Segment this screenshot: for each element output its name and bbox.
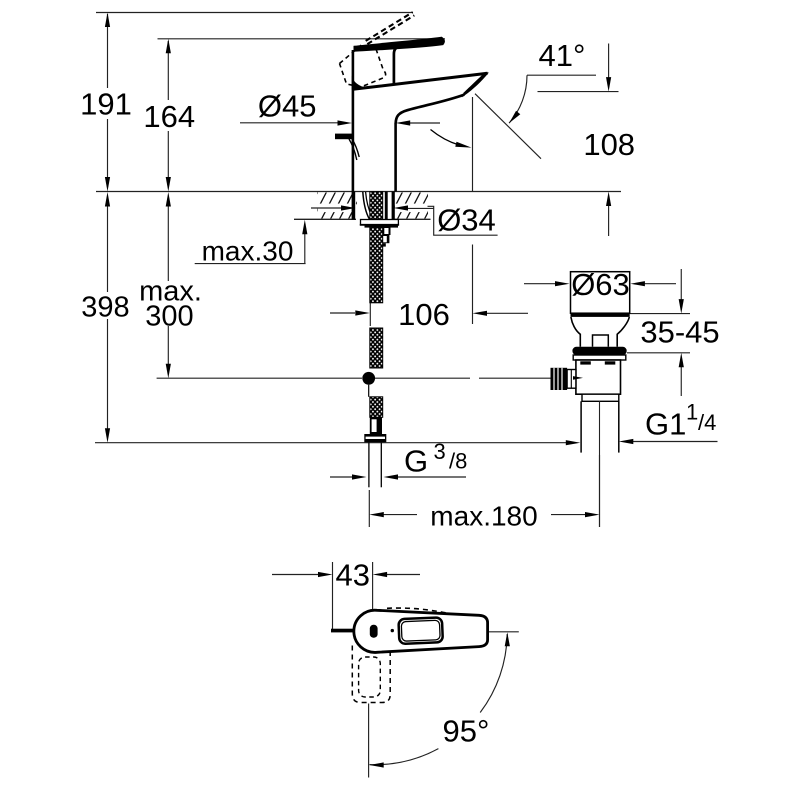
svg-text:95°: 95° xyxy=(443,714,490,749)
svg-text:/8: /8 xyxy=(449,449,467,474)
svg-text:Ø34: Ø34 xyxy=(437,203,496,238)
svg-text:G: G xyxy=(404,444,428,479)
svg-text:35-45: 35-45 xyxy=(640,315,719,350)
svg-text:3: 3 xyxy=(434,439,446,464)
svg-text:300: 300 xyxy=(145,301,193,333)
svg-text:/4: /4 xyxy=(698,410,716,435)
svg-text:Ø63: Ø63 xyxy=(571,267,630,302)
svg-text:43: 43 xyxy=(336,558,370,593)
svg-text:G1: G1 xyxy=(645,407,686,442)
svg-text:108: 108 xyxy=(583,127,635,162)
svg-text:191: 191 xyxy=(80,87,132,122)
svg-text:398: 398 xyxy=(81,292,129,324)
svg-text:max.180: max.180 xyxy=(430,501,537,532)
svg-text:1: 1 xyxy=(686,400,698,425)
svg-text:164: 164 xyxy=(143,99,195,134)
svg-text:41°: 41° xyxy=(539,38,586,73)
svg-text:max.30: max.30 xyxy=(202,236,294,267)
svg-text:106: 106 xyxy=(398,297,450,332)
svg-text:Ø45: Ø45 xyxy=(258,89,317,124)
